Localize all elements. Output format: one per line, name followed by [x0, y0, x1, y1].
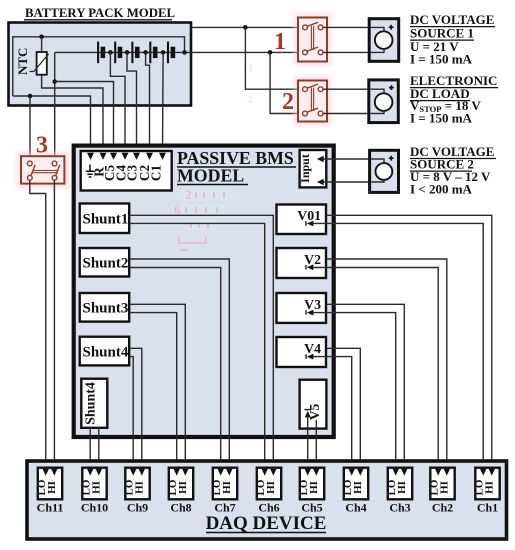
thermistor RT1: [30, 52, 49, 75]
DAQ channel Ch10 connector: [81, 468, 107, 500]
DAQ channel Ch5 connector: [298, 468, 324, 500]
node: battery positive junction: [182, 50, 187, 55]
wire: source 2 to input (bottom): [323, 180, 385, 182]
wire: V3 to Ch3 HI: [326, 304, 404, 469]
node: battery negative tap: [52, 79, 57, 84]
wire: battery cell chain rail: [98, 51, 191, 53]
svg-text:MODEL: MODEL: [177, 166, 244, 186]
V3 box: [277, 293, 327, 323]
wire: switch 2 to DC load (top): [323, 89, 384, 93]
svg-text:Ch8: Ch8: [170, 501, 191, 515]
DAQ channel Ch4 connector: [342, 468, 368, 500]
svg-text:Shunt2: Shunt2: [83, 256, 129, 272]
wire: battery negative rail: [55, 51, 98, 53]
PASSIVE BMS MODEL title: [177, 148, 296, 186]
node: bottom wire tap: [28, 94, 33, 99]
ghost artifact block (faint): [172, 63, 253, 250]
BMS input connector: [81, 151, 172, 191]
wire: shunt4 to Ch9 LO: [129, 357, 133, 470]
DAQ channel Ch6 connector: [255, 468, 281, 500]
pin arrow C5: [110, 153, 117, 160]
svg-text:V5: V5: [307, 404, 322, 421]
wire: V5 to Ch5 LO: [307, 416, 309, 470]
svg-text:2: 2: [282, 89, 294, 115]
svg-text:BATTERY PACK MODEL: BATTERY PACK MODEL: [25, 6, 175, 20]
DAQ channel Ch9 connector: [124, 468, 150, 500]
wire: switch 2 to DC load (bottom): [323, 111, 384, 114]
wire: junction3 to C2 pin: [146, 52, 150, 153]
svg-text:HI: HI: [134, 481, 146, 494]
battery cell B1: [98, 42, 103, 64]
shunt1 box: [80, 204, 130, 234]
wire: tap to C5 pin: [55, 82, 114, 154]
DAQ DEVICE title: [206, 513, 327, 534]
wire: V2 to Ch2 HI: [326, 259, 447, 470]
wire: NTC top loop (left vertical, top wire, right drop to battery+): [13, 37, 185, 96]
svg-text:Shunt4: Shunt4: [83, 345, 129, 361]
wire: shunt4 current to Ch10 HI: [98, 428, 100, 470]
switch S3: [16, 152, 70, 189]
svg-text:I = 150 mA: I = 150 mA: [410, 51, 473, 66]
wire: V5 to Ch5 HI: [315, 420, 317, 470]
pin arrow C4: [122, 153, 129, 160]
DAQ channel Ch1 connector: [474, 468, 500, 500]
svg-text:Ch4: Ch4: [345, 501, 366, 515]
svg-text:Ch9: Ch9: [127, 501, 148, 515]
V5 box (vertical): [300, 380, 327, 429]
node: junction to switch 2 top: [243, 25, 248, 30]
node: cell junction 3: [143, 50, 148, 55]
BATTERY PACK MODEL title: [24, 6, 175, 20]
wire: V3 to Ch3 LO: [313, 313, 396, 470]
wire: NTC top lead: [41, 37, 43, 52]
wire: chassis wire to switch 1 top: [191, 26, 303, 28]
wire: down to switch 2 top: [245, 27, 302, 89]
svg-text:I = 150 mA: I = 150 mA: [410, 111, 473, 126]
svg-text:Input: Input: [298, 154, 312, 183]
svg-text:V01: V01: [297, 208, 321, 223]
DC VOLTAGE SOURCE 2 label: [410, 144, 496, 197]
wire: switch 1 to source 1 (top): [323, 27, 384, 32]
DAQ channel Ch2 connector: [429, 468, 455, 500]
wire: shunt1 to Ch6 HI: [129, 215, 273, 469]
wire: shunt4 to Ch9 HI: [129, 348, 142, 469]
svg-text:C1: C1: [149, 165, 164, 181]
svg-text:HI: HI: [221, 481, 233, 494]
shunt3 box: [80, 293, 130, 322]
wire: shunt2 to Ch7 HI: [129, 259, 229, 470]
wire: shunt1 to Ch6 LO: [129, 223, 265, 469]
wire: switch 3 to DAQ Ch11 LO: [30, 180, 46, 469]
wire: shunt3 to Ch8 LO: [129, 313, 177, 470]
svg-text:Ch2: Ch2: [432, 501, 453, 515]
svg-text:HI: HI: [308, 481, 320, 494]
svg-text:NTC: NTC: [15, 48, 30, 75]
svg-text:HI: HI: [396, 481, 408, 494]
svg-text:1: 1: [274, 29, 286, 55]
node: NTC top junction: [39, 35, 44, 40]
pin arrow C1: [159, 153, 166, 160]
input arrow top: [317, 156, 324, 162]
V4 box: [277, 337, 327, 367]
wire: V4 to Ch4 HI: [326, 348, 360, 469]
electronic DC load symbol: [369, 80, 399, 123]
wire: down to switch 2 bottom: [270, 52, 302, 113]
svg-text:HI: HI: [46, 481, 58, 494]
wire: V01 to Ch1 LO: [313, 223, 484, 469]
pin arrow C2: [146, 153, 153, 160]
svg-text:Shunt1: Shunt1: [83, 212, 129, 228]
svg-text:DAQ DEVICE: DAQ DEVICE: [206, 513, 327, 534]
DC VOLTAGE SOURCE 1 label: [410, 12, 495, 66]
wire: NTC bottom lead to R pin: [42, 75, 103, 154]
svg-text:HI: HI: [91, 481, 103, 494]
svg-text:3: 3: [36, 133, 48, 159]
wire: battery positive to switch 1 bottom: [191, 51, 303, 53]
DAQ channel Ch7 connector: [211, 468, 237, 500]
pin arrow GND: [87, 153, 94, 160]
svg-text:HI: HI: [352, 481, 364, 494]
node: cell junction 4: [161, 50, 166, 55]
svg-text:Shunt4: Shunt4: [84, 382, 99, 425]
wire: V2 to Ch2 LO: [313, 268, 439, 470]
wire: shunt4 current to Ch10 LO: [89, 428, 91, 470]
shunt2 box: [80, 248, 130, 277]
DAQ device box: [27, 461, 507, 539]
wire: shunt2 to Ch7 LO: [129, 268, 221, 470]
svg-text:Shunt3: Shunt3: [83, 301, 129, 317]
svg-text:1: 1: [248, 63, 253, 74]
wire: junction1 to C4 pin: [110, 52, 125, 153]
pin arrow R: [100, 153, 107, 160]
DC voltage source 2 symbol: [370, 150, 399, 192]
battery cell B4: [150, 42, 155, 64]
svg-text:2: 2: [248, 95, 253, 106]
wire: V01 to Ch1 HI: [326, 215, 492, 469]
BMS input box: [298, 150, 326, 187]
V01 box: [277, 205, 327, 235]
shunt4 current box (vertical): [81, 379, 107, 428]
wire: battery negative down to switch 3: [54, 52, 56, 161]
wire: switch 1 to source 1 (bottom): [323, 48, 384, 52]
wire: switch 3 to DAQ Ch11 HI: [53, 180, 55, 469]
svg-text:HI: HI: [265, 481, 277, 494]
node: cell junction 2: [125, 50, 130, 55]
switch S2: [294, 76, 332, 126]
wire: shunt3 to Ch8 HI: [129, 304, 185, 469]
DAQ channel Ch8 connector: [167, 468, 193, 500]
svg-text:HI: HI: [484, 481, 496, 494]
battery cell B3: [132, 42, 137, 64]
ELECTRONIC DC LOAD label: [410, 73, 498, 126]
pin arrow C3: [133, 153, 140, 160]
pin label ground symbol: [86, 165, 94, 178]
svg-text:HI: HI: [439, 481, 451, 494]
input arrow bottom: [317, 179, 324, 185]
node: cell junction 1: [108, 50, 113, 55]
svg-text:Ch3: Ch3: [389, 501, 410, 515]
passive BMS model box: [74, 146, 334, 437]
svg-text:Ch11: Ch11: [37, 501, 64, 515]
shunt4 box: [80, 337, 130, 366]
battery pack model box: [9, 23, 192, 106]
DAQ channel Ch11 connector: [36, 468, 62, 500]
switch S1: [294, 13, 332, 66]
wire: bottom tap down to switch 3: [29, 96, 31, 161]
DAQ channel Ch3 connector: [386, 468, 412, 500]
V2 box: [277, 248, 327, 278]
wire: bottom inner wire to ground pin: [13, 96, 91, 154]
svg-text:Ch10: Ch10: [81, 501, 108, 515]
node: junction to switch 2 bottom: [268, 50, 273, 55]
wire: V4 to Ch4 LO: [313, 357, 352, 470]
svg-text:I < 200 mA: I < 200 mA: [410, 182, 473, 197]
svg-text:Ch1: Ch1: [477, 501, 498, 515]
wire: junction2 to C3 pin: [127, 52, 137, 153]
battery cell B2: [115, 42, 120, 64]
wire: source 2 to input (top): [323, 159, 385, 163]
DC voltage source 1 symbol: [369, 19, 399, 62]
svg-text:HI: HI: [177, 481, 189, 494]
wire: junction4 to C1 pin: [162, 52, 165, 153]
battery cell B5: [168, 42, 173, 64]
svg-text:V3: V3: [304, 297, 321, 312]
svg-text:V4: V4: [304, 341, 321, 356]
svg-text:2: 2: [185, 187, 192, 202]
